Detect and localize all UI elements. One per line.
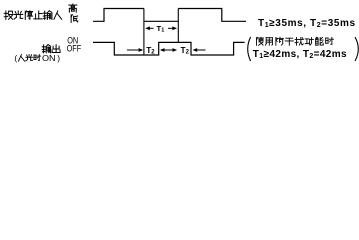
input waveform trace: [93, 9, 246, 22]
svg-text:T1≥35ms, T2=35ms: T1≥35ms, T2=35ms: [258, 18, 356, 29]
big left parenthesis: [248, 37, 251, 61]
label: 低 (low): [71, 15, 78, 23]
extension line: input pulse2 rise edge x=178: [177, 9, 179, 43]
T1 dimension arrows (between fall edge and rise edge): [148, 27, 153, 29]
label: 高 (high): [69, 4, 77, 12]
T2 dimension #1: outside arrow left: [127, 49, 140, 51]
extension line: input pulse1 fall edge x=144: [143, 9, 145, 56]
svg-text:(: (: [14, 53, 17, 63]
svg-text:OFF: OFF: [67, 44, 82, 55]
svg-text:): ): [57, 53, 60, 63]
label: 投光停止输入 (emission stop input): [4, 11, 13, 19]
big right parenthesis: [355, 37, 358, 61]
T2 dimension #2: outside arrow right: [196, 49, 206, 51]
label: 输出 (output): [42, 45, 50, 53]
note line 1: 使用防干扰功能时: [257, 37, 264, 45]
T2 dimension #1/#2 shared middle arrows (left tip + right tip): [163, 49, 169, 51]
svg-text:ON: ON: [42, 53, 56, 63]
svg-text:T1≥42ms, T2=42ms: T1≥42ms, T2=42ms: [253, 49, 347, 60]
output waveform trace: [93, 42, 245, 55]
